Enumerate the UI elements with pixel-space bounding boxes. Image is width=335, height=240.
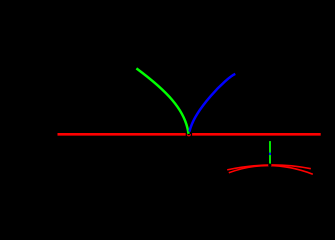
blue unstable branch curve: [190, 74, 236, 132]
blue marker segment on green line: [269, 153, 271, 155]
bifurcation point marker: red lower crescent: [187, 134, 190, 136]
small dark dot at arc apex: [268, 164, 271, 167]
red equilibrium branch line right segment: [192, 133, 321, 136]
red arc B lower right: [229, 166, 313, 175]
green vertical line: [269, 141, 271, 164]
green stable branch curve: [136, 68, 188, 133]
red arc A lower right: [227, 165, 311, 170]
red equilibrium branch line left segment: [58, 133, 186, 136]
